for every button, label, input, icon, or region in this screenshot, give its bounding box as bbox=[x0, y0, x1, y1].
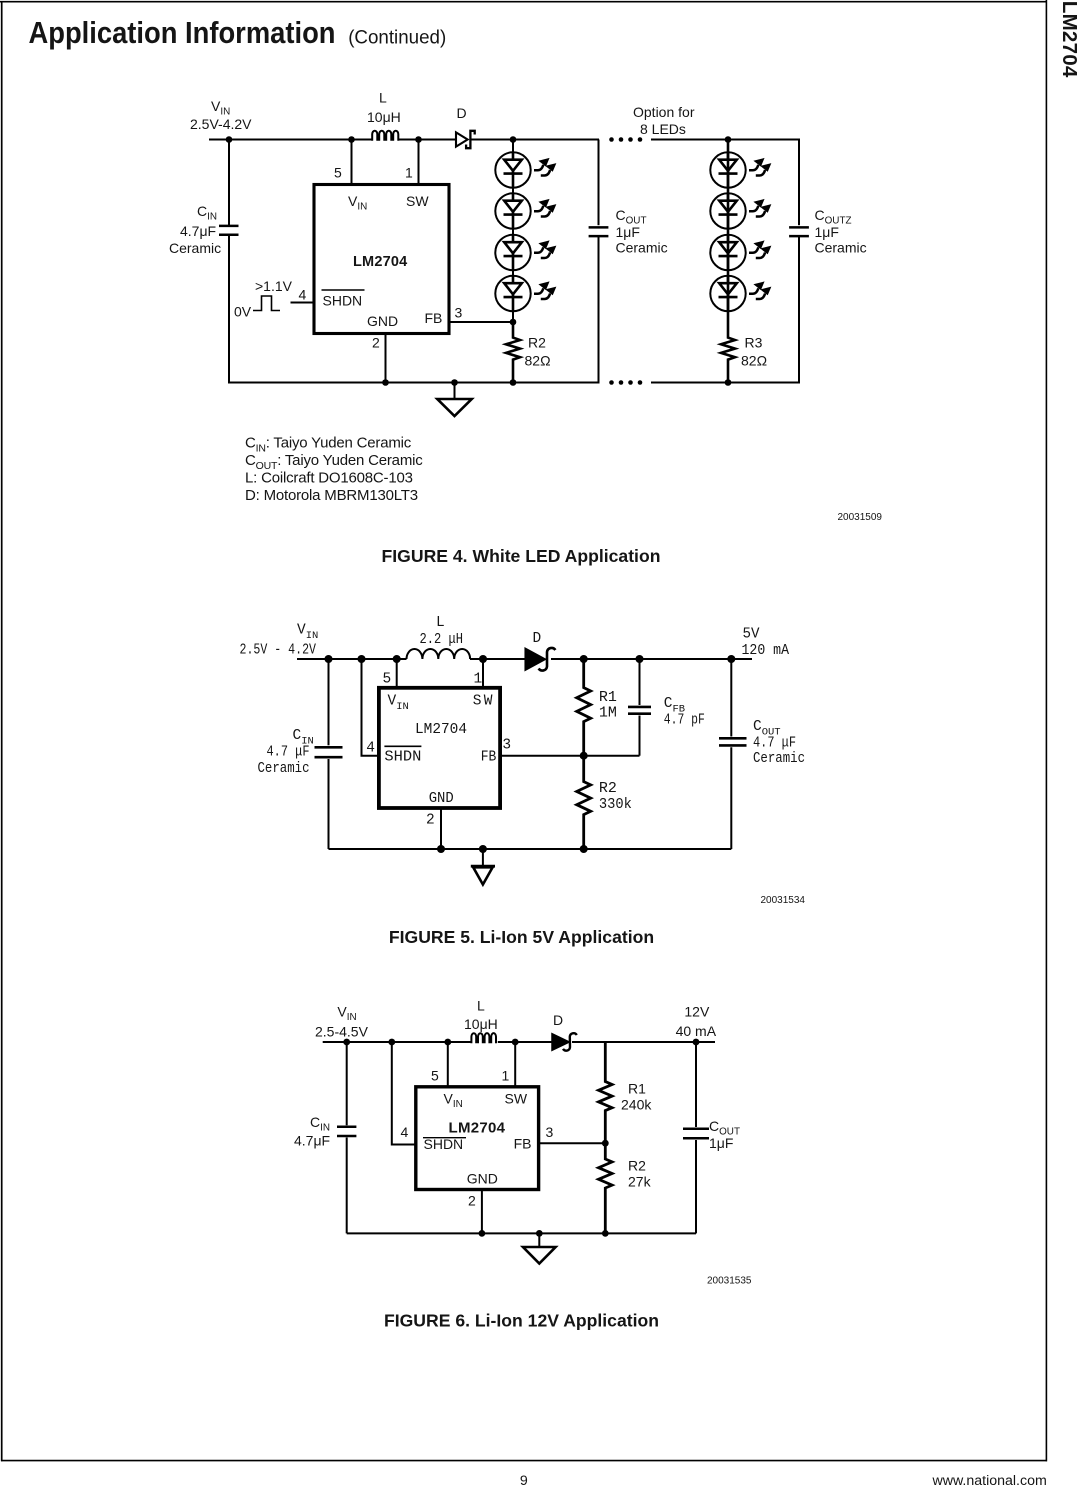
wire FB to LED string bbox=[449, 321, 514, 323]
wire SHDN from top rail bbox=[362, 659, 379, 756]
svg-text:D: Motorola MBRM130LT3: D: Motorola MBRM130LT3 bbox=[245, 487, 418, 504]
op-amp U3 LM2704 box bbox=[416, 1087, 539, 1190]
op-amp U1 LM2704 box bbox=[314, 185, 449, 334]
wire FB to divider bbox=[539, 1142, 606, 1144]
svg-text:R3: R3 bbox=[745, 334, 763, 350]
LED D8 bbox=[710, 276, 745, 311]
svg-text:R2: R2 bbox=[628, 1157, 646, 1173]
wire: VIN top rail bbox=[297, 658, 407, 660]
svg-text:GND: GND bbox=[429, 791, 454, 807]
svg-text:4.7μF: 4.7μF bbox=[180, 223, 216, 239]
svg-text:SW: SW bbox=[505, 1091, 528, 1107]
diode D (filled) bbox=[525, 648, 555, 671]
svg-text:Ceramic: Ceramic bbox=[815, 240, 867, 256]
op-amp U2 LM2704 box bbox=[379, 688, 500, 808]
node dot pin5 bbox=[348, 136, 355, 143]
svg-text:40 mA: 40 mA bbox=[676, 1023, 717, 1039]
svg-text:5: 5 bbox=[431, 1068, 439, 1084]
wire: rail under/after inductor bbox=[470, 658, 526, 660]
svg-text:120 mA: 120 mA bbox=[742, 643, 790, 659]
node dot pin1 bbox=[479, 655, 487, 663]
pulse waveform symbol bbox=[253, 296, 280, 311]
wire LED string 1 bbox=[512, 140, 514, 323]
node dot pin1 bbox=[512, 1039, 519, 1046]
wire pin 2 to ground rail bbox=[481, 1190, 483, 1234]
svg-text:1: 1 bbox=[502, 1068, 510, 1084]
wire pin 2 to ground rail bbox=[440, 808, 442, 849]
inductor L arcs bbox=[407, 649, 471, 659]
svg-text:12V: 12V bbox=[684, 1003, 710, 1019]
wire bottom rail second section bbox=[651, 382, 800, 384]
svg-text:>1.1V: >1.1V bbox=[255, 278, 293, 294]
svg-text:4.7 μF: 4.7 μF bbox=[267, 745, 310, 761]
svg-text:3: 3 bbox=[502, 738, 511, 754]
LED D2 bbox=[495, 193, 530, 228]
svg-text:1: 1 bbox=[474, 672, 483, 688]
capacitor C_OUT bbox=[589, 140, 609, 384]
svg-text:Ceramic: Ceramic bbox=[169, 240, 221, 256]
svg-text:R2: R2 bbox=[599, 781, 617, 797]
svg-text:5: 5 bbox=[383, 672, 392, 688]
wire: diode to output bbox=[551, 658, 752, 660]
wire pin 1 stub bbox=[418, 140, 420, 185]
wire pin 5 stub bbox=[396, 659, 398, 688]
wire: top rail second section bbox=[651, 139, 800, 141]
svg-text:FIGURE 4. White LED Applicatio: FIGURE 4. White LED Application bbox=[382, 546, 661, 566]
LED D1 bbox=[495, 152, 530, 187]
svg-text:FB: FB bbox=[514, 1136, 532, 1152]
svg-text:1μF: 1μF bbox=[815, 224, 839, 240]
svg-text:FIGURE 6. Li-Ion 12V Applicati: FIGURE 6. Li-Ion 12V Application bbox=[384, 1311, 659, 1331]
wire bottom ground rail bbox=[329, 848, 732, 850]
resistor R2 bbox=[599, 1143, 613, 1233]
node dot R2 bottom bbox=[510, 379, 517, 386]
svg-text:2.5-4.5V: 2.5-4.5V bbox=[315, 1024, 369, 1040]
svg-text:20031509: 20031509 bbox=[838, 512, 883, 523]
node dot output bbox=[727, 655, 735, 663]
wire bottom ground rail bbox=[229, 382, 599, 384]
LED D4 bbox=[495, 276, 530, 311]
wire SHDN stub bbox=[291, 302, 315, 304]
wire pin 1 stub bbox=[482, 659, 484, 688]
svg-text:2.5V-4.2V: 2.5V-4.2V bbox=[190, 116, 252, 132]
svg-text:5V: 5V bbox=[743, 626, 760, 642]
node dot CIN top bbox=[325, 655, 333, 663]
wire LED string 2 bbox=[727, 140, 729, 337]
svg-text:4: 4 bbox=[299, 287, 307, 303]
wire: diode to output bbox=[572, 1041, 715, 1043]
svg-text:4: 4 bbox=[401, 1124, 409, 1140]
svg-text:4.7 μF: 4.7 μF bbox=[753, 736, 796, 752]
node: continuation dots bottom bbox=[609, 380, 642, 385]
wire FB to divider bbox=[500, 755, 639, 757]
svg-text:8 LEDs: 8 LEDs bbox=[640, 121, 686, 137]
svg-text:Ceramic: Ceramic bbox=[258, 761, 310, 777]
inductor L humps bbox=[372, 131, 398, 141]
svg-text:27k: 27k bbox=[628, 1173, 652, 1189]
wire: rail diode cathode to COUT bbox=[470, 139, 599, 141]
capacitor C_IN bbox=[337, 1042, 356, 1233]
resistor R2 bbox=[506, 322, 520, 383]
svg-text:1: 1 bbox=[405, 165, 413, 181]
svg-text:Option for: Option for bbox=[633, 104, 695, 120]
svg-text:GND: GND bbox=[467, 1171, 498, 1187]
svg-text:SHDN: SHDN bbox=[384, 750, 421, 766]
node dot LED string 2 top bbox=[725, 136, 732, 143]
capacitor C_OUTZ bbox=[789, 140, 809, 384]
node dot R2 bottom bbox=[580, 845, 588, 853]
capacitor C_IN plates bbox=[219, 226, 239, 235]
svg-text:www.national.com: www.national.com bbox=[931, 1473, 1046, 1487]
resistor R2 bbox=[577, 756, 591, 849]
resistor R1 bbox=[577, 659, 591, 756]
node dot FB junction bbox=[510, 319, 517, 326]
svg-text:SW: SW bbox=[406, 193, 429, 209]
capacitor C_OUT bbox=[719, 659, 747, 849]
wire: rail after inductor to diode bbox=[498, 1041, 553, 1043]
node dot pin5 bbox=[393, 655, 401, 663]
wire: VIN top rail bbox=[323, 1041, 471, 1043]
node dot pin5 bbox=[444, 1039, 451, 1046]
node dot R2 bottom bbox=[602, 1230, 609, 1237]
svg-text:10μH: 10μH bbox=[367, 109, 401, 125]
svg-text:LM2704: LM2704 bbox=[449, 1119, 506, 1136]
svg-text:Ceramic: Ceramic bbox=[616, 240, 668, 256]
ground symbol bbox=[523, 1233, 556, 1263]
svg-text:3: 3 bbox=[546, 1124, 554, 1140]
svg-text:GND: GND bbox=[367, 313, 398, 329]
svg-text:4.7 pF: 4.7 pF bbox=[664, 713, 705, 729]
svg-text:Ceramic: Ceramic bbox=[753, 751, 805, 767]
notes: component sourcing bbox=[245, 434, 423, 504]
node dot pin1 bbox=[415, 136, 422, 143]
node dot FB junction bbox=[580, 752, 588, 760]
svg-text:2: 2 bbox=[372, 335, 380, 351]
node dot gnd junction bbox=[479, 845, 487, 853]
svg-text:D: D bbox=[533, 631, 542, 647]
node dot pin2 bottom bbox=[437, 845, 445, 853]
svg-text:1μF: 1μF bbox=[709, 1135, 733, 1151]
ground symbol bbox=[437, 383, 471, 417]
wire pin 1 stub bbox=[514, 1042, 516, 1087]
diode D (schottky, outline) bbox=[456, 131, 475, 148]
node dot gnd junction bbox=[536, 1230, 543, 1237]
node dot R1 top bbox=[580, 655, 588, 663]
ground symbol bbox=[471, 849, 495, 885]
svg-text:20031535: 20031535 bbox=[707, 1276, 752, 1287]
node dot pin2 bottom bbox=[479, 1230, 486, 1237]
resistor R1 bbox=[599, 1042, 613, 1143]
svg-text:SW: SW bbox=[473, 694, 493, 710]
node dot output bbox=[693, 1039, 700, 1046]
svg-text:5: 5 bbox=[334, 165, 342, 181]
svg-text:D: D bbox=[457, 105, 467, 121]
wire pin 2 to ground rail bbox=[385, 334, 387, 384]
svg-text:4: 4 bbox=[366, 741, 375, 757]
node dot pin2 gnd bbox=[382, 379, 389, 386]
svg-text:FB: FB bbox=[481, 750, 497, 766]
wire pin 5 stub bbox=[351, 140, 353, 185]
svg-text:LM2704: LM2704 bbox=[415, 722, 467, 738]
capacitor C_IN bbox=[315, 659, 343, 849]
svg-text:2: 2 bbox=[426, 813, 435, 829]
LED D3 bbox=[495, 235, 530, 270]
wire: CIN to bottom rail bbox=[228, 236, 230, 384]
svg-text:82Ω: 82Ω bbox=[525, 352, 551, 368]
node dot FB junction bbox=[602, 1140, 609, 1147]
svg-text:Application Information: Application Information bbox=[29, 16, 336, 50]
svg-text:FIGURE 5. Li-Ion 5V Applicatio: FIGURE 5. Li-Ion 5V Application bbox=[389, 927, 654, 947]
node dot SHDN top bbox=[358, 655, 366, 663]
svg-text:1M: 1M bbox=[599, 706, 617, 722]
resistor R3 bbox=[721, 140, 735, 383]
node dot VIN bbox=[226, 136, 233, 143]
node dot R3 bottom bbox=[725, 379, 732, 386]
wire bottom ground rail bbox=[347, 1232, 696, 1234]
svg-text:3: 3 bbox=[455, 305, 463, 321]
node dot CFB top bbox=[636, 655, 644, 663]
svg-text:LM2704: LM2704 bbox=[353, 254, 407, 270]
node dot gnd symbol junction bbox=[451, 379, 458, 386]
node dot CIN top bbox=[343, 1039, 350, 1046]
svg-text:D: D bbox=[553, 1012, 563, 1028]
svg-text:L: L bbox=[477, 998, 485, 1014]
svg-text:R1: R1 bbox=[599, 690, 617, 706]
svg-text:R1: R1 bbox=[628, 1081, 646, 1097]
svg-text:L: L bbox=[379, 90, 387, 106]
svg-text:2: 2 bbox=[468, 1193, 476, 1209]
svg-text:82Ω: 82Ω bbox=[741, 352, 767, 368]
capacitor C_OUT bbox=[683, 1042, 709, 1233]
svg-text:330k: 330k bbox=[599, 797, 632, 813]
capacitor C_FB bbox=[628, 659, 651, 756]
svg-text:20031534: 20031534 bbox=[761, 895, 806, 906]
svg-text:LM2704: LM2704 bbox=[1058, 1, 1079, 78]
svg-text:L: Coilcraft DO1608C-103: L: Coilcraft DO1608C-103 bbox=[245, 470, 413, 487]
LED D5 bbox=[710, 152, 745, 187]
LED D7 bbox=[710, 235, 745, 270]
svg-text:1μF: 1μF bbox=[616, 224, 640, 240]
svg-text:SHDN: SHDN bbox=[323, 293, 363, 309]
wire: VIN top rail bbox=[209, 139, 372, 141]
node: continuation dots top bbox=[609, 137, 642, 142]
svg-text:2.5V - 4.2V: 2.5V - 4.2V bbox=[240, 643, 317, 659]
svg-text:2.2 μH: 2.2 μH bbox=[420, 632, 464, 648]
svg-text:9: 9 bbox=[520, 1473, 528, 1487]
inductor L humps bbox=[471, 1033, 496, 1043]
svg-text:0V: 0V bbox=[234, 304, 252, 320]
svg-text:R2: R2 bbox=[528, 334, 546, 350]
svg-text:240k: 240k bbox=[621, 1097, 652, 1113]
LED D6 bbox=[710, 193, 745, 228]
node dot SHDN top bbox=[388, 1039, 395, 1046]
svg-text:FB: FB bbox=[425, 310, 443, 326]
svg-text:4.7μF: 4.7μF bbox=[294, 1133, 330, 1149]
diode D (filled) bbox=[552, 1033, 577, 1050]
wire: left input rail down to CIN bbox=[228, 140, 230, 226]
svg-text:(Continued): (Continued) bbox=[348, 27, 446, 48]
svg-text:10μH: 10μH bbox=[464, 1016, 498, 1032]
node dot LED string top bbox=[510, 136, 517, 143]
wire SHDN from top rail bbox=[392, 1042, 416, 1145]
wire pin 5 stub bbox=[447, 1042, 449, 1087]
svg-text:L: L bbox=[436, 615, 445, 631]
svg-text:SHDN: SHDN bbox=[424, 1136, 464, 1152]
